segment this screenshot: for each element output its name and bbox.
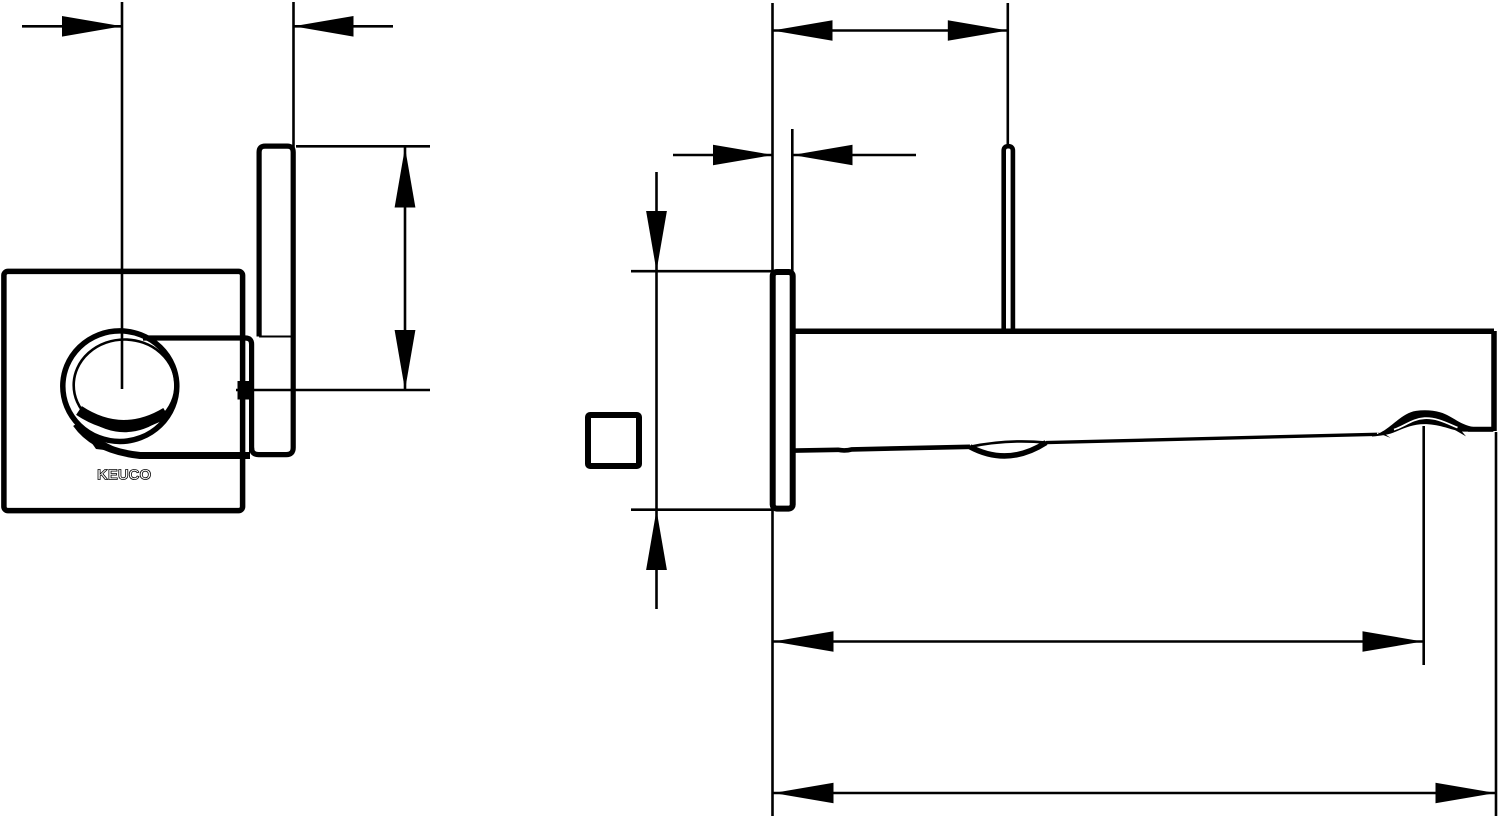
svg-text:KEUCO: KEUCO [97,467,152,484]
